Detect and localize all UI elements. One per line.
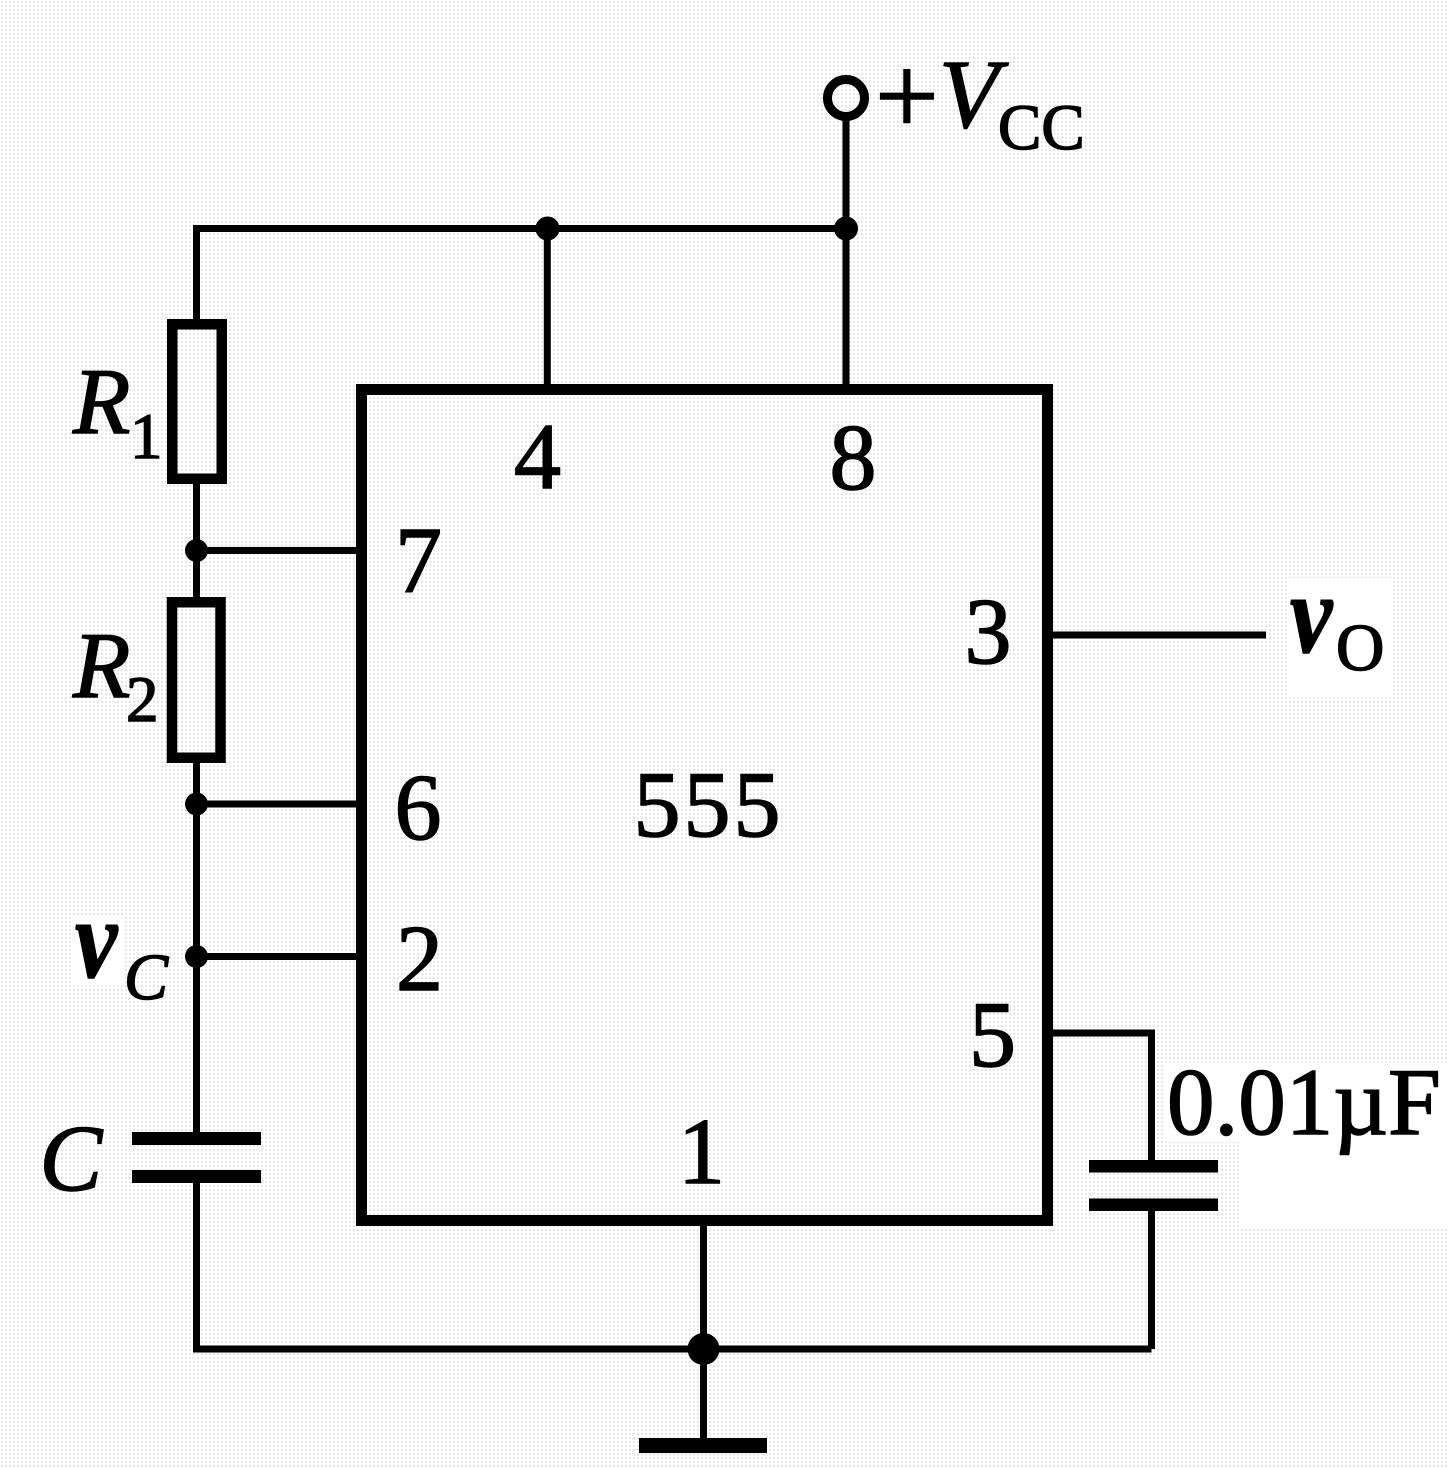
resistor R2: [172, 602, 221, 758]
node: junction dot top rail / pin 4: [536, 217, 560, 241]
wire: capacitor C bottom to bottom rail: [193, 1183, 200, 1353]
wire: left rail above R1: [193, 225, 200, 319]
svg-text:+: +: [875, 34, 939, 159]
wire: pin 1 to ground: [700, 1226, 707, 1440]
ground: [639, 1438, 767, 1453]
node: junction dot vC pin2: [185, 945, 208, 968]
svg-text:O: O: [1336, 611, 1384, 685]
wire: R2 bottom to capacitor C top: [193, 763, 200, 1132]
wire: Vcc stem to pin 8: [843, 118, 850, 384]
svg-text:2: 2: [126, 664, 159, 736]
svg-text:8: 8: [830, 406, 877, 510]
svg-text:v: v: [75, 878, 119, 1002]
wire: R1 bottom to R2 top: [193, 484, 200, 597]
svg-text:v: v: [1290, 553, 1334, 677]
node: junction dot bottom rail / pin1: [688, 1333, 720, 1365]
svg-text:R: R: [72, 350, 130, 454]
node: junction dot top rail / Vcc: [834, 217, 858, 241]
wire: pin 5 to 0.01uF capacitor: [1051, 1033, 1152, 1160]
wire: bottom rail: [193, 1346, 1152, 1353]
wire: pin 6 to node B: [197, 801, 357, 808]
svg-text:555: 555: [634, 753, 784, 857]
svg-text:5: 5: [969, 983, 1016, 1087]
svg-text:7: 7: [395, 509, 442, 613]
Vcc terminal circle: [828, 80, 865, 117]
svg-text:C: C: [40, 1107, 104, 1211]
svg-text:3: 3: [965, 580, 1012, 684]
capacitor C plates: [132, 1132, 261, 1145]
svg-text:CC: CC: [998, 92, 1085, 164]
wire: pin 2 to node vC: [197, 953, 357, 960]
svg-text:C: C: [124, 941, 169, 1014]
svg-text:4: 4: [514, 405, 561, 509]
IC 555 box U1: [362, 390, 1048, 1221]
white label backgrounds: [1287, 578, 1391, 698]
wire: 0.01uF bottom to bottom rail: [1148, 1211, 1155, 1350]
capacitor 0.01uF plates: [1089, 1160, 1218, 1173]
svg-text:0.01µF: 0.01µF: [1167, 1049, 1441, 1155]
svg-text:1: 1: [678, 1100, 725, 1204]
node: junction dot R1/R2 pin7: [185, 539, 208, 562]
svg-text:6: 6: [395, 756, 442, 860]
wire: pin 3 output: [1051, 632, 1266, 639]
svg-text:R: R: [72, 614, 130, 718]
wire: top rail from R1 top to Vcc: [197, 225, 847, 232]
svg-text:2: 2: [396, 907, 443, 1011]
svg-text:1: 1: [130, 401, 163, 473]
wire: pin 7 to node A: [197, 547, 357, 554]
wire: pin 4 to top rail: [544, 228, 551, 384]
resistor R1: [172, 324, 222, 479]
node: junction dot R2/C pin6: [185, 793, 208, 816]
